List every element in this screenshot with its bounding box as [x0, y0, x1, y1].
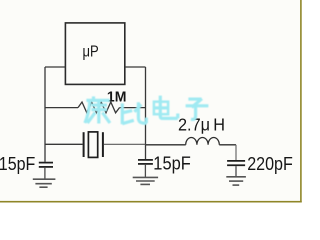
- wire to inductor: [146, 144, 186, 146]
- svg-text:220pF: 220pF: [247, 153, 293, 174]
- wire right drop: [235, 145, 237, 160]
- wire crystal row right: [104, 143, 146, 145]
- wire C1 to ground: [44, 168, 46, 179]
- wire from inductor to right drop: [219, 144, 236, 146]
- watermark char 电: [154, 96, 178, 119]
- svg-text:1M: 1M: [107, 89, 127, 105]
- wire from U1 left pin: [45, 66, 65, 68]
- wire resistor row right: [120, 107, 146, 109]
- wire from U1 right pin: [125, 66, 146, 68]
- ground under C2: [133, 177, 158, 184]
- wire C2 to ground: [144, 165, 146, 177]
- watermark char 子: [186, 99, 209, 120]
- svg-text:μP: μP: [83, 43, 99, 60]
- capacitor C1 bottom plate: [39, 166, 53, 168]
- crystal Y1 right plate: [102, 132, 104, 157]
- capacitor C2 bottom plate: [138, 163, 153, 165]
- capacitor C3 bottom plate: [227, 164, 245, 166]
- svg-text:2.7μ H: 2.7μ H: [178, 114, 225, 134]
- wire left rail: [44, 67, 46, 162]
- inductor L1: [186, 138, 220, 145]
- watermark char 康: [85, 96, 110, 123]
- capacitor C1 top plate: [39, 162, 53, 164]
- capacitor C3 top plate: [227, 160, 245, 162]
- svg-text:15pF: 15pF: [153, 152, 191, 173]
- wire resistor row left: [45, 107, 78, 109]
- resistor R1 zigzag: [78, 102, 120, 113]
- ground under C3: [226, 177, 246, 185]
- watermark char 比: [122, 102, 146, 124]
- watermark 康比电子: [85, 96, 208, 125]
- crystal Y1 left plate: [83, 132, 85, 157]
- capacitor C2 top plate: [138, 159, 153, 161]
- ground under C1: [33, 179, 56, 187]
- wire crystal row left: [45, 143, 83, 145]
- crystal Y1 body: [88, 132, 97, 158]
- svg-text:15pF: 15pF: [0, 153, 35, 174]
- wire right rail: [145, 67, 147, 159]
- microprocessor U1 box: [65, 23, 124, 85]
- wire C3 to ground: [235, 166, 237, 177]
